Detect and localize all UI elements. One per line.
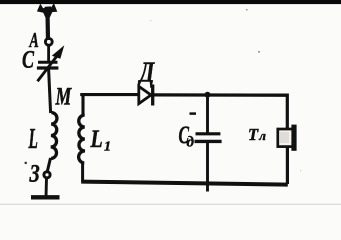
svg-text:л: л xyxy=(258,128,266,143)
wire L to node З xyxy=(47,158,50,172)
wire telephone to bottom xyxy=(286,147,289,185)
top wire diode to right xyxy=(153,93,288,97)
svg-text:3: 3 xyxy=(29,160,40,187)
node A xyxy=(45,38,52,45)
antenna xyxy=(37,3,57,40)
wire C to coil L xyxy=(49,69,51,113)
telephone Tl box xyxy=(278,129,294,147)
svg-text:Д: Д xyxy=(138,58,155,88)
label Cd with dash above xyxy=(190,112,197,115)
ground xyxy=(45,178,48,197)
coil L (bumps bulge right) xyxy=(51,113,57,159)
top border bar xyxy=(0,0,341,4)
svg-text:M: M xyxy=(55,83,72,111)
svg-text:L: L xyxy=(28,123,38,154)
coil L1 (bumps bulge left) xyxy=(79,115,85,163)
junction node: top of Cd xyxy=(205,92,211,98)
svg-text:Т: Т xyxy=(248,125,259,144)
junction node: bottom of Cd xyxy=(205,181,210,186)
variable capacitor C xyxy=(37,54,59,81)
speckles xyxy=(25,9,302,171)
svg-text:1: 1 xyxy=(104,140,111,155)
wire L1 bottom xyxy=(81,163,84,182)
svg-text:C: C xyxy=(22,46,34,74)
svg-text:д: д xyxy=(187,135,195,151)
svg-text:L: L xyxy=(90,125,103,153)
node З xyxy=(44,172,50,178)
bottom wire xyxy=(81,182,288,185)
faint bottom rule xyxy=(0,204,341,205)
diode D xyxy=(139,86,151,103)
wire A to capacitor C xyxy=(47,45,50,61)
capacitor Cd xyxy=(206,95,209,133)
wire: L1 branch top corner to diode (top wire left) xyxy=(83,95,138,114)
right branch down to telephone xyxy=(286,94,289,130)
